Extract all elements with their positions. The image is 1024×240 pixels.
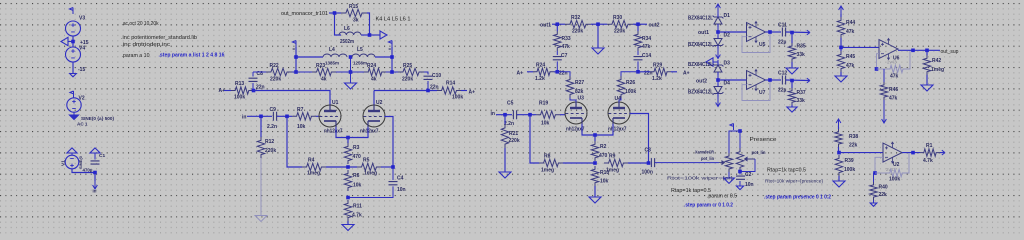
svg-text:A+: A+ <box>469 90 476 96</box>
svg-text:470µ: 470µ <box>83 168 93 173</box>
resistor R35 <box>791 33 793 44</box>
resistor R45 <box>837 51 844 72</box>
ground <box>833 181 845 187</box>
resistor R4 <box>302 163 326 170</box>
junction cathode R net <box>346 165 350 169</box>
svg-text:U2: U2 <box>376 100 383 106</box>
svg-text:47k: 47k <box>889 96 898 102</box>
resistor R33 <box>556 24 558 31</box>
wire <box>906 153 909 173</box>
wire <box>370 34 381 36</box>
wire <box>786 79 809 82</box>
svg-text:out_monacor_tr101: out_monacor_tr101 <box>281 11 328 17</box>
resistor R8 <box>539 159 563 166</box>
wire <box>381 166 393 168</box>
voltage source V1 <box>65 155 79 169</box>
resistor R22 <box>266 68 292 75</box>
svg-text:22n: 22n <box>256 85 265 91</box>
junction tone row left <box>294 70 298 74</box>
svg-text:R27: R27 <box>575 80 584 86</box>
wire <box>336 71 364 73</box>
svg-text:220k: 220k <box>614 29 625 35</box>
svg-text:.inc dmtriodep.inc: .inc dmtriodep.inc <box>121 42 170 48</box>
resistor R19 <box>536 111 560 118</box>
svg-text:out1: out1 <box>540 23 551 29</box>
wire <box>671 71 677 73</box>
junction C8/R13 <box>252 89 256 93</box>
junction coil row right <box>390 55 394 59</box>
svg-text:out2: out2 <box>696 79 707 85</box>
wire <box>247 115 272 117</box>
op-amp U5 <box>747 22 766 43</box>
resistor R32 <box>565 21 591 28</box>
junction out2 clamp <box>716 78 720 82</box>
junction after C12 <box>790 79 794 83</box>
wire <box>557 72 570 76</box>
wire <box>554 71 557 73</box>
resistor R24b <box>533 68 554 75</box>
svg-text:R33: R33 <box>562 36 571 42</box>
svg-text:22k: 22k <box>879 192 888 198</box>
svg-text:R24: R24 <box>367 63 376 69</box>
svg-text:U5: U5 <box>759 42 766 48</box>
svg-text:Rtap=1k tap=0.5: Rtap=1k tap=0.5 <box>671 188 711 194</box>
svg-text:R46: R46 <box>889 87 898 93</box>
wire <box>461 90 467 92</box>
resistor R40 <box>873 173 875 182</box>
wire <box>717 75 719 86</box>
svg-text:10n: 10n <box>397 187 406 193</box>
svg-text:.step param a list 1 2 4 8 16: .step param a list 1 2 4 8 16 <box>159 53 225 59</box>
resistor R3 <box>347 138 349 144</box>
junction R9/C3 <box>647 161 651 165</box>
svg-text:V3: V3 <box>79 16 85 22</box>
wiper presence <box>745 157 756 161</box>
resistor R1 <box>920 149 940 156</box>
ground rotated left small <box>713 61 718 63</box>
wire <box>940 152 944 154</box>
node monacor in <box>333 11 337 15</box>
capacitor C2 <box>739 171 741 175</box>
svg-text:47k: 47k <box>846 29 855 35</box>
wire feedback U7 <box>742 80 770 101</box>
capacitor C3 <box>651 158 654 167</box>
zener D2 <box>713 36 724 49</box>
junction C10 bottom <box>426 89 430 93</box>
wire U2 grid <box>385 117 394 168</box>
svg-text:A+: A+ <box>517 71 524 77</box>
net flag down <box>717 97 719 99</box>
svg-text:100k: 100k <box>452 95 463 101</box>
net flag up <box>836 119 841 127</box>
resistor R44 <box>840 14 842 17</box>
svg-text:R1: R1 <box>926 143 933 149</box>
net flag pots <box>730 124 734 131</box>
svg-text:.param cr 0.5: .param cr 0.5 <box>707 194 737 200</box>
wire <box>717 27 719 37</box>
net flag down <box>93 181 98 189</box>
wire <box>424 72 428 75</box>
resistor R6 <box>344 170 351 191</box>
resistor R2 <box>594 135 596 141</box>
resistor R42 <box>926 50 928 55</box>
svg-text:L4: L4 <box>329 47 335 53</box>
svg-text:R30: R30 <box>613 15 622 21</box>
resistor R27 <box>566 76 573 98</box>
wire L4/L5 tap down <box>350 57 352 83</box>
resistor R24 <box>364 68 386 75</box>
svg-text:4k: 4k <box>371 77 377 83</box>
svg-text:4.7k: 4.7k <box>352 213 362 219</box>
ground above V1 rotated 180 <box>71 153 73 156</box>
svg-text:82k: 82k <box>575 89 584 95</box>
wire <box>296 56 323 58</box>
net flag x392 <box>388 41 392 48</box>
inductor L5 <box>352 54 375 57</box>
port flag right <box>380 31 387 39</box>
wire U6 out <box>898 49 940 51</box>
resistor R34 <box>637 24 639 31</box>
svg-text:R12: R12 <box>265 139 274 145</box>
junction R5/C4 <box>391 165 395 169</box>
wire cathode bus <box>336 127 368 138</box>
svg-text:R19: R19 <box>539 101 548 107</box>
svg-text:in: in <box>242 115 246 121</box>
junction U5 out <box>768 30 772 34</box>
ground <box>724 178 735 183</box>
svg-text:1.2k: 1.2k <box>535 76 545 82</box>
svg-text:V1: V1 <box>61 160 67 166</box>
svg-text:out_sup: out_sup <box>941 49 959 55</box>
wire <box>633 23 647 25</box>
svg-text:R26: R26 <box>626 80 635 86</box>
ground <box>787 107 797 112</box>
svg-text:C7: C7 <box>561 53 568 59</box>
junction out2 top <box>636 22 640 26</box>
ground above C1 rotated 180 <box>94 153 96 160</box>
ground <box>589 197 601 203</box>
wiper anodeCR <box>719 161 725 165</box>
wire <box>840 72 842 76</box>
potentiometer XanodeCR pot_lin <box>725 153 732 172</box>
svg-text:47k: 47k <box>642 44 651 50</box>
capacitor C9 <box>273 112 276 121</box>
svg-text:D1: D1 <box>724 13 731 19</box>
wire plate bus U2 <box>373 91 375 106</box>
svg-text:470: 470 <box>599 153 608 159</box>
wire <box>729 131 740 153</box>
wire <box>326 166 357 168</box>
wire <box>72 169 95 173</box>
ground light <box>255 216 267 222</box>
wire <box>517 114 536 116</box>
op-amp U7 <box>747 70 766 91</box>
port arrow right <box>942 150 945 155</box>
svg-text:1meg: 1meg <box>931 67 944 73</box>
svg-text:220k: 220k <box>509 138 520 144</box>
inductor L6 <box>339 32 361 35</box>
svg-text:100n: 100n <box>642 170 653 176</box>
svg-text:R44: R44 <box>846 20 855 26</box>
node +15 junction <box>71 40 75 44</box>
svg-text:100k: 100k <box>844 167 855 173</box>
svg-text:R15: R15 <box>349 4 358 10</box>
svg-text:BZX84C12L: BZX84C12L <box>688 16 713 22</box>
svg-text:47k: 47k <box>890 74 899 80</box>
svg-text:K4 L4 L5 L6 1: K4 L4 L5 L6 1 <box>376 17 411 23</box>
wire <box>563 162 595 164</box>
resistor R13 <box>231 87 253 94</box>
voltage source V3 <box>66 21 81 36</box>
svg-text:R24: R24 <box>536 63 545 69</box>
svg-text:R29: R29 <box>653 63 662 69</box>
svg-text:nh12ax7: nh12ax7 <box>360 128 379 134</box>
svg-text:1.2k: 1.2k <box>652 76 662 82</box>
svg-text:R5: R5 <box>363 158 370 164</box>
svg-text:pot_lin: pot_lin <box>701 156 714 162</box>
svg-text:R25: R25 <box>403 63 412 69</box>
junction out_sup b <box>925 49 929 53</box>
wire out2 to U7 <box>718 79 747 81</box>
wire <box>926 75 928 85</box>
wire U8 out <box>902 152 920 154</box>
capacitor C1 <box>91 161 100 164</box>
ground <box>736 186 743 190</box>
junction crossing <box>349 70 353 74</box>
svg-text:Presence: Presence <box>750 137 777 143</box>
ground <box>921 85 933 91</box>
svg-text:10k: 10k <box>353 183 362 189</box>
junction R1 in <box>911 151 915 155</box>
wire <box>292 71 312 73</box>
capacitor C11 <box>782 28 785 37</box>
junction R44/R45 <box>839 46 843 50</box>
triode U1 <box>319 105 341 127</box>
svg-text:R13: R13 <box>235 81 244 87</box>
resistor R7 <box>292 113 316 120</box>
svg-text:.step param cr 0 1 0.2: .step param cr 0 1 0.2 <box>684 203 733 209</box>
wire <box>427 81 429 91</box>
svg-text:1meg: 1meg <box>307 171 320 177</box>
resistor R14 <box>437 87 461 94</box>
junction coil row left <box>294 55 298 59</box>
junction V1/C1 <box>93 171 97 175</box>
svg-text:33k: 33k <box>797 52 806 58</box>
svg-text:.inc potentiometer_standard.li: .inc potentiometer_standard.lib <box>121 35 197 41</box>
wire plate U3 <box>570 98 576 103</box>
net flag up <box>839 6 844 14</box>
junction R6/R11 <box>346 196 350 200</box>
junction out1 <box>556 22 560 26</box>
svg-text:L5: L5 <box>357 47 363 53</box>
capacitor C5 <box>513 110 516 119</box>
svg-text:R35: R35 <box>797 44 806 50</box>
triode U4 <box>608 102 630 124</box>
svg-text:R37: R37 <box>797 90 806 96</box>
svg-text:D3: D3 <box>724 61 731 67</box>
svg-text:AC 1: AC 1 <box>77 122 88 127</box>
wire <box>316 115 319 117</box>
net flag down <box>717 49 719 51</box>
wire <box>883 100 885 115</box>
svg-text:220k: 220k <box>572 29 583 35</box>
capacitor C14 <box>637 51 639 55</box>
wire <box>72 62 74 73</box>
voltage source V4 <box>66 47 81 62</box>
svg-text:C2: C2 <box>745 172 752 178</box>
svg-text:220k: 220k <box>270 77 281 83</box>
junction R38/R39 <box>837 151 841 155</box>
wire <box>791 105 793 107</box>
wire <box>838 176 840 181</box>
svg-text:Rtap=1k tap=0.5: Rtap=1k tap=0.5 <box>767 168 806 174</box>
svg-text:C9: C9 <box>270 107 277 113</box>
wire cathode bus 2 <box>582 124 613 135</box>
resistor R12 <box>260 116 262 137</box>
wire <box>361 34 370 36</box>
net flag x296 <box>292 41 296 48</box>
svg-text:R21: R21 <box>509 131 518 137</box>
svg-text:100k: 100k <box>889 177 900 183</box>
inductor L4 <box>323 54 347 57</box>
resistor R15 <box>341 9 367 16</box>
port arrow right <box>807 30 810 35</box>
wire <box>391 47 393 72</box>
zener D4 <box>713 84 724 97</box>
junction cathode 2 <box>593 133 597 137</box>
svg-text:out1: out1 <box>698 30 709 36</box>
ground below V2 <box>73 112 75 115</box>
resistor R5 <box>357 163 381 170</box>
junction out_sup a <box>911 49 915 53</box>
svg-text:10k: 10k <box>600 179 609 185</box>
resistor R26 <box>617 76 624 98</box>
svg-text:R40: R40 <box>879 185 888 191</box>
svg-text:BZX84C12L: BZX84C12L <box>688 62 713 68</box>
svg-text:R23: R23 <box>316 63 325 69</box>
wire <box>766 31 782 33</box>
svg-text:in: in <box>93 189 97 194</box>
ground <box>835 76 847 82</box>
svg-text:out2: out2 <box>649 23 660 29</box>
wire <box>347 221 349 225</box>
resistor R30 <box>607 21 633 28</box>
resistor R46 <box>883 69 885 82</box>
net flag atop V3 <box>69 8 73 15</box>
junction cathode2 R net <box>593 161 597 165</box>
svg-text:R11: R11 <box>353 204 362 210</box>
svg-text:33k: 33k <box>797 98 806 104</box>
triode U3 <box>565 102 587 124</box>
wire <box>329 12 341 14</box>
resistor R23 <box>312 68 336 75</box>
svg-text:.param a 10: .param a 10 <box>122 53 150 59</box>
potentiometer presence pot_lin <box>736 148 743 171</box>
svg-text:R7: R7 <box>297 107 304 113</box>
svg-text:-15: -15 <box>78 67 85 73</box>
svg-text:R39: R39 <box>845 158 854 164</box>
wire <box>277 115 292 117</box>
svg-text:2v43: 2v43 <box>887 60 897 65</box>
svg-text:1256m: 1256m <box>353 61 367 67</box>
svg-text:R34: R34 <box>642 36 651 42</box>
svg-text:R9: R9 <box>609 154 616 160</box>
svg-text:4.7k: 4.7k <box>923 158 933 164</box>
junction wiper loop <box>738 170 742 174</box>
wire to ground <box>597 24 599 48</box>
svg-text:C1: C1 <box>99 153 105 159</box>
capacitor C12 <box>782 76 785 85</box>
capacitor C10 <box>424 76 433 79</box>
svg-text:U3: U3 <box>578 96 585 102</box>
svg-text:nh12ax7: nh12ax7 <box>608 127 627 133</box>
svg-text:47k: 47k <box>562 44 571 50</box>
svg-text:C4: C4 <box>397 176 404 182</box>
resistor R21 <box>504 115 506 124</box>
wire plate U4 <box>619 98 621 103</box>
resistor R9 <box>604 159 628 166</box>
junction mid <box>596 22 600 26</box>
svg-text:1meg: 1meg <box>541 168 554 174</box>
junction out1 clamp <box>716 30 720 34</box>
op-amp U6 <box>879 39 898 60</box>
svg-text:3k: 3k <box>353 18 359 24</box>
op-amp U8 <box>883 142 902 163</box>
svg-text:C10: C10 <box>432 73 441 79</box>
voltage source V2 <box>67 98 81 112</box>
junction after C5 <box>528 113 532 117</box>
wire <box>840 38 842 51</box>
wire out1 to U5 <box>718 31 747 33</box>
svg-text:R42: R42 <box>932 58 941 64</box>
wire <box>621 72 638 76</box>
wire to U8 <box>839 152 883 154</box>
ground below V4 <box>70 74 77 77</box>
wire feedback U6 <box>877 54 880 69</box>
svg-text:22µ: 22µ <box>778 40 787 46</box>
svg-text:C14: C14 <box>642 53 651 59</box>
wiper loop <box>741 159 755 172</box>
wire <box>496 114 512 116</box>
resistor R37 <box>791 81 793 89</box>
wire U4 grid <box>630 114 649 164</box>
wire <box>504 148 506 172</box>
resistor R11 <box>344 200 351 221</box>
wire <box>72 36 74 47</box>
wire plate bus U1 <box>253 91 330 106</box>
junction cathode <box>346 136 350 140</box>
svg-text:Rtot=100k wiper={cr}: Rtot=100k wiper={cr} <box>667 176 734 182</box>
junction feedback U6 <box>875 67 879 71</box>
junction pots top <box>738 129 742 133</box>
junction feedback U8 <box>873 171 877 175</box>
wire <box>875 172 886 174</box>
resistor R38 <box>838 127 840 129</box>
svg-text:R4: R4 <box>308 158 315 164</box>
svg-text:SINE(0 {a} 500): SINE(0 {a} 500) <box>81 116 114 121</box>
svg-text:470: 470 <box>353 154 362 160</box>
svg-text:.ac oct 20 10 20k: .ac oct 20 10 20k <box>122 21 159 27</box>
svg-text:100k: 100k <box>625 89 636 95</box>
resistor R39 <box>835 155 842 176</box>
port arrow right <box>807 78 810 83</box>
wire <box>335 13 342 35</box>
wire <box>838 147 840 153</box>
svg-text:L6: L6 <box>344 26 350 32</box>
svg-text:R2: R2 <box>600 144 607 150</box>
wire <box>594 186 596 197</box>
wire to pot <box>655 162 719 164</box>
